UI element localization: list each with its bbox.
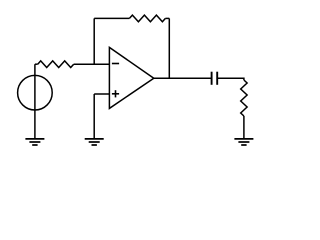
wire R3 to ground <box>243 116 245 139</box>
wire feedback top right <box>165 17 169 19</box>
wire plus input vertical down <box>93 94 95 139</box>
wire feedback left vertical <box>93 18 95 64</box>
capacitor C1 <box>212 72 218 85</box>
wire capacitor to corner <box>217 78 244 80</box>
op-amp plus label <box>112 90 119 97</box>
ground (right) <box>234 139 253 145</box>
ground (middle, under op-amp plus input) <box>85 139 104 145</box>
wire R1 to op-amp inverting input (node A) <box>74 63 110 65</box>
wire op-amp output to capacitor <box>154 77 212 79</box>
wire source top to resistor R1 <box>35 63 38 65</box>
ground (under source) <box>25 139 44 145</box>
resistor R1 (input) <box>38 61 74 68</box>
wire feedback right vertical to output node <box>168 18 170 78</box>
resistor R2 (feedback) <box>129 15 165 22</box>
wire vertical through source <box>34 64 36 139</box>
wire feedback top left <box>94 17 129 19</box>
resistor R3 (right, vertical) <box>241 80 247 116</box>
voltage source V1 <box>18 75 53 110</box>
op-amp minus label <box>112 63 119 65</box>
wire plus input horizontal <box>94 93 109 95</box>
op-amp U1 <box>109 47 153 108</box>
